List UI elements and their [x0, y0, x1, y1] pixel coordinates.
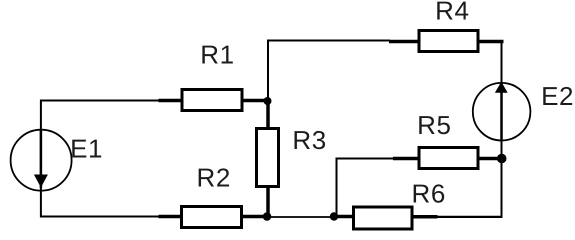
wire R5 left horizontal to corner — [336, 158, 395, 160]
svg-text:R4: R4 — [435, 0, 469, 26]
wire left vertical (E1 branch) — [40, 100, 42, 218]
source E2 (current source, arrow up) — [473, 82, 531, 141]
resistor R3 (vertical) — [257, 100, 279, 217]
wire bottom rail R6 to right vertical — [436, 216, 503, 218]
resistor R1 — [159, 90, 268, 111]
svg-text:E1: E1 — [70, 133, 103, 163]
svg-text:R3: R3 — [292, 125, 326, 155]
wire bottom rail between node E and node D — [267, 216, 337, 218]
wire top-left horizontal node A to R1 — [40, 100, 160, 102]
wire E2 bottom vertical to bottom rail — [501, 139, 503, 218]
wire top rail horizontal to R4 — [267, 40, 390, 42]
source E1 (current source, arrow down) — [11, 130, 72, 191]
junction node B (R1/R3/top branch) — [264, 97, 272, 105]
resistor R5 — [393, 148, 501, 169]
wire right vertical R4 down to E2 — [501, 41, 503, 85]
svg-text:E2: E2 — [541, 81, 574, 111]
wire R5 branch vertical corner down to node D — [336, 158, 338, 218]
junction node C (E2/R5) — [497, 154, 507, 164]
svg-text:R5: R5 — [417, 110, 451, 140]
resistor R6 — [336, 207, 438, 229]
svg-text:R2: R2 — [197, 163, 231, 193]
junction node D (bottom rail / R5 branch) — [330, 212, 338, 220]
svg-text:R6: R6 — [412, 179, 446, 209]
resistor R2 — [159, 207, 268, 228]
resistor R4 — [389, 31, 504, 52]
wire mid vertical junction B up to top rail — [267, 40, 269, 103]
wire bottom rail left segment E1 to R2 — [40, 216, 160, 218]
svg-text:R1: R1 — [200, 40, 234, 70]
junction node E (R2/R3/bottom rail) — [263, 212, 272, 221]
